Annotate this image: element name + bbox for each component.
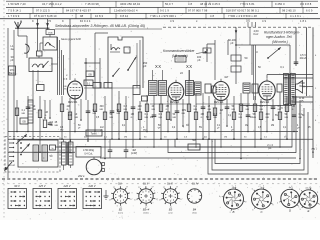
svg-text:MΩ: MΩ	[278, 109, 282, 111]
svg-text:pF: pF	[230, 41, 233, 45]
svg-text:MΩ: MΩ	[246, 109, 250, 111]
svg-text:2M: 2M	[201, 113, 204, 116]
svg-text:0,1: 0,1	[280, 65, 284, 69]
ground symbol bottom	[104, 190, 109, 199]
svg-text:0,5: 0,5	[159, 113, 163, 116]
svg-text:25: 25	[208, 105, 211, 108]
svg-text:MΩ: MΩ	[138, 109, 142, 111]
tube socket E	[299, 186, 320, 213]
table mid rule	[6, 6, 318, 8]
svg-text:E: E	[308, 209, 310, 213]
svg-text:20mA: 20mA	[300, 56, 307, 60]
wire segment y104 a	[150, 103, 190, 105]
svg-text:Ω: Ω	[166, 109, 168, 111]
svg-text:B3: B3	[169, 208, 173, 212]
svg-text:9: 9	[62, 19, 64, 23]
switch box right	[252, 45, 290, 75]
table lower rule	[6, 12, 318, 14]
svg-text:pF: pF	[143, 64, 146, 68]
tube Rö4	[259, 78, 275, 102]
svg-text:97 8,10 7 8,28 10: 97 8,10 7 8,28 10	[34, 14, 57, 18]
svg-text:(unt): (unt)	[169, 212, 173, 215]
svg-text:Gauss jugend 4x90: Gauss jugend 4x90	[61, 38, 82, 41]
IF can 2	[159, 70, 167, 96]
bus wire 5	[100, 157, 296, 159]
svg-text:48 46 29 0 25 0: 48 46 29 0 25 0	[200, 2, 221, 6]
wire bottom right block	[240, 106, 292, 111]
svg-text:17: 17	[180, 199, 182, 201]
svg-text:2: 2	[277, 202, 278, 204]
svg-text:C: C	[260, 210, 263, 214]
page fold edge	[3, 0, 5, 220]
switch contact S1	[127, 57, 136, 71]
svg-text:1M: 1M	[224, 75, 228, 79]
svg-text:4Ω: 4Ω	[84, 137, 87, 139]
voltage selector 125 V	[33, 184, 52, 209]
bus wire 3	[55, 146, 292, 148]
svg-text:98: 98	[80, 14, 84, 18]
svg-text:MΩ: MΩ	[159, 117, 163, 119]
bus wire 1	[8, 131, 298, 133]
svg-text:50: 50	[285, 113, 288, 116]
nested return wires	[168, 96, 308, 174]
svg-text:50: 50	[244, 137, 247, 139]
svg-text:20: 20	[152, 105, 155, 108]
labels under tubes	[68, 102, 270, 104]
coupling caps tube1	[84, 83, 140, 89]
speaker LS	[296, 81, 303, 94]
svg-text:(Mit mehr.): (Mit mehr.)	[272, 40, 288, 44]
primary winding 2	[42, 145, 48, 161]
arrow from table 2	[46, 19, 48, 28]
svg-text:MΩ: MΩ	[232, 109, 236, 111]
svg-text:MΩ: MΩ	[253, 117, 257, 119]
padder box 1	[37, 85, 45, 91]
svg-text:6: 6	[252, 189, 253, 191]
speaker field circle	[86, 157, 104, 175]
svg-text:Ω: Ω	[45, 115, 47, 117]
svg-text:MΩ: MΩ	[124, 109, 128, 111]
svg-text:(mW): (mW)	[131, 151, 137, 155]
resistor top mid 1	[231, 55, 248, 61]
svg-text:MΩ: MΩ	[93, 113, 97, 115]
labels left column upper	[10, 44, 14, 62]
svg-text:0,2: 0,2	[124, 105, 128, 108]
svg-text:1 8 1: 1 8 1	[300, 19, 307, 23]
voltage tap strip	[8, 142, 16, 167]
svg-text:Sd II: Sd II	[143, 183, 148, 186]
svg-text:0,4 CuL: 0,4 CuL	[84, 153, 93, 156]
svg-text:MΩ: MΩ	[173, 117, 177, 119]
grid cap tube4	[277, 84, 282, 92]
svg-text:~: ~	[50, 158, 52, 161]
svg-text:MΩ: MΩ	[75, 117, 79, 119]
svg-text:4: 4	[315, 120, 317, 122]
labels near speaker	[299, 81, 305, 103]
bottom caption text	[118, 183, 198, 186]
svg-text:Bank: Bank	[9, 71, 16, 75]
svg-text:17: 17	[159, 199, 161, 201]
svg-text:9: 9	[300, 209, 301, 211]
resistor mid-left	[84, 80, 93, 86]
svg-text:B3+4: B3+4	[143, 208, 150, 212]
junction dots middle band	[13, 117, 301, 159]
svg-text:m: m	[312, 151, 314, 154]
svg-text:Selbstbau-abonneller 3-Röhrge: Selbstbau-abonneller 3-Röhrgen- 45 MB-LB…	[55, 24, 145, 28]
table column ticks	[30, 1, 303, 19]
svg-text:x: x	[66, 73, 68, 77]
resistor pair tube2 left	[133, 86, 148, 102]
svg-text:MΩ: MΩ	[260, 109, 264, 111]
IF can 3	[186, 70, 194, 96]
svg-text:1M: 1M	[131, 113, 134, 116]
tube Rö3	[213, 79, 229, 103]
svg-text:17: 17	[163, 187, 165, 189]
antenna	[15, 22, 22, 29]
svg-text:0,5: 0,5	[50, 121, 54, 124]
svg-text:4: 4	[315, 55, 317, 57]
svg-text:4: 4	[291, 186, 292, 188]
svg-text:0,5: 0,5	[258, 127, 262, 129]
label row below bus	[64, 137, 287, 139]
title text	[55, 24, 162, 29]
switch wafer B3	[159, 186, 183, 214]
svg-text:7: 7	[316, 149, 318, 151]
svg-text:GB: GB	[22, 121, 26, 124]
wires left coil block	[18, 28, 50, 58]
table top rule	[6, 0, 318, 2]
svg-text:9 250 0: 9 250 0	[275, 2, 285, 6]
wave switch contacts a	[63, 73, 68, 81]
svg-text:pF: pF	[10, 58, 13, 62]
wire drop right 1	[235, 27, 237, 45]
resistor pair tube4 left	[243, 83, 258, 93]
svg-text:MΩ: MΩ	[194, 109, 198, 111]
svg-text:0,1: 0,1	[87, 82, 91, 85]
svg-text:0,1: 0,1	[194, 105, 198, 108]
wire right inner border	[306, 27, 308, 96]
svg-text:4 8: 4 8	[210, 14, 214, 18]
svg-text:202 e: 202 e	[77, 174, 85, 178]
wire segment y104 b	[196, 103, 250, 105]
svg-text:0,5: 0,5	[184, 137, 188, 139]
labels right column lower	[267, 143, 315, 154]
svg-text:98 2 65 10: 98 2 65 10	[282, 9, 296, 13]
bus wire 2	[8, 138, 313, 140]
svg-text:240 V: 240 V	[87, 184, 95, 188]
svg-text:MΩ: MΩ	[117, 113, 121, 115]
antenna junction wire	[15, 27, 50, 29]
tube Rö1	[67, 78, 82, 101]
svg-text:0,1: 0,1	[22, 109, 26, 112]
mains selector box	[18, 140, 58, 167]
svg-text:ngen-Audion -Teil: ngen-Audion -Teil	[266, 35, 292, 39]
svg-text:MΩ: MΩ	[214, 117, 218, 119]
power transformer T1	[62, 139, 74, 170]
cap cluster top mid	[197, 48, 211, 62]
svg-text:518 597 60 917 30 98 0,1: 518 597 60 917 30 98 0,1	[226, 9, 259, 13]
switch wafer B2	[109, 186, 133, 214]
svg-text:17: 17	[130, 199, 132, 201]
svg-text:17: 17	[134, 199, 136, 201]
svg-text:MΩ: MΩ	[55, 125, 59, 127]
svg-text:4 x 4 9 x: 4 x 4 9 x	[290, 14, 302, 18]
svg-text:97 0 121 5: 97 0 121 5	[36, 9, 50, 13]
osc coil L3	[110, 44, 120, 52]
resistor top mid 2	[224, 66, 241, 79]
svg-text:pF: pF	[78, 128, 81, 130]
svg-text:RES 164: RES 164	[260, 102, 270, 104]
svg-text:4M: 4M	[166, 105, 169, 108]
svg-text:MΩ: MΩ	[100, 109, 104, 111]
GB box left	[20, 118, 28, 124]
svg-text:10 9 4 4: 10 9 4 4	[80, 19, 91, 23]
svg-text:4 9: 4 9	[170, 19, 174, 23]
label 170b box	[46, 28, 55, 34]
wire drop right 2	[295, 27, 297, 66]
svg-text:0,1: 0,1	[264, 137, 268, 139]
svg-text:1M: 1M	[45, 111, 48, 114]
coil bundle wires	[38, 37, 64, 95]
svg-text:10 8,3: 10 8,3	[95, 14, 103, 18]
GB box	[86, 71, 94, 77]
svg-text:Sdl: Sdl	[118, 183, 122, 186]
trimmer square 2	[124, 47, 130, 53]
svg-text:50: 50	[232, 105, 235, 108]
svg-text:10N: 10N	[182, 109, 187, 112]
small box left	[9, 66, 16, 75]
mains plug arrow	[4, 162, 12, 171]
svg-text:B: B	[233, 210, 235, 214]
svg-text:0,1: 0,1	[239, 113, 243, 116]
IF can 4	[195, 82, 202, 95]
voltage selector 90 V	[8, 184, 27, 209]
svg-text:50: 50	[258, 66, 261, 69]
svg-text:17: 17	[152, 187, 154, 189]
chassis ground line	[2, 178, 318, 180]
wires vertical band	[14, 30, 300, 159]
resistors middle band	[15, 104, 296, 128]
svg-text:22: 22	[180, 71, 183, 75]
svg-text:17: 17	[176, 187, 178, 189]
svg-text:9: 9	[273, 204, 274, 206]
svg-text:MΩ: MΩ	[299, 117, 303, 119]
svg-text:4a: 4a	[11, 47, 14, 51]
mains switch	[20, 142, 30, 155]
table row 4 text	[20, 19, 307, 23]
table row 2 text	[8, 9, 313, 13]
svg-text:5N: 5N	[253, 113, 256, 116]
svg-text:(mitte): (mitte)	[143, 212, 149, 215]
svg-text:MΩ: MΩ	[208, 109, 212, 111]
double wire right switchbox	[254, 45, 256, 100]
svg-text:0,1: 0,1	[145, 113, 149, 116]
svg-text:1700 Wdg: 1700 Wdg	[83, 149, 95, 152]
svg-text:17: 17	[126, 187, 128, 189]
svg-text:Sd IV: Sd IV	[192, 183, 198, 186]
svg-text:0,2: 0,2	[172, 127, 176, 129]
tone label box	[86, 130, 102, 136]
svg-text:pF: pF	[197, 58, 200, 62]
svg-text:220 V: 220 V	[62, 184, 70, 188]
cap on bus 5	[108, 139, 113, 158]
svg-text:MΩ: MΩ	[285, 117, 289, 119]
svg-text:2M: 2M	[124, 137, 127, 139]
value labels middle band	[22, 105, 303, 127]
svg-text:300: 300	[100, 105, 105, 108]
wire left border	[7, 28, 9, 178]
coil curl La	[24, 44, 29, 53]
svg-text:97 97 800 7 98: 97 97 800 7 98	[188, 9, 208, 13]
table row 1 text	[8, 2, 312, 6]
svg-text:x x: x x	[63, 77, 68, 81]
svg-text:4600 250 48,04: 4600 250 48,04	[120, 2, 140, 6]
svg-text:9: 9	[32, 19, 34, 23]
svg-text:(m.m): (m.m)	[306, 188, 312, 190]
primary winding 1	[33, 145, 39, 161]
svg-text:5M: 5M	[192, 138, 196, 142]
svg-text:GB: GB	[88, 73, 92, 76]
svg-text:4 9: 4 9	[262, 19, 266, 23]
table row 3 text	[8, 14, 302, 18]
svg-text:5N: 5N	[199, 127, 202, 129]
svg-text:2M: 2M	[67, 105, 70, 108]
svg-text:50: 50	[245, 56, 248, 60]
svg-text:4Ω: 4Ω	[204, 137, 207, 139]
cap on bus 5 b	[124, 139, 138, 158]
right title block	[264, 30, 301, 44]
middle note text	[163, 49, 208, 58]
extra value labels	[60, 115, 311, 132]
wire right connects	[235, 44, 252, 46]
svg-text:50: 50	[173, 113, 176, 116]
svg-text:(vorn): (vorn)	[118, 213, 123, 215]
wave switch contacts b	[155, 64, 162, 69]
cap block above tube2	[175, 56, 186, 62]
mains dashed outline	[5, 137, 60, 173]
svg-text:100: 100	[138, 105, 143, 108]
tube socket D	[277, 186, 299, 213]
svg-text:x: x	[196, 20, 198, 23]
output transformer T2	[284, 74, 296, 105]
trimmer square	[37, 51, 43, 56]
svg-text:MΩ: MΩ	[110, 117, 114, 119]
svg-text:7 45 00 98: 7 45 00 98	[85, 2, 99, 6]
svg-text:B2: B2	[119, 208, 123, 212]
svg-text:2M: 2M	[271, 125, 274, 127]
svg-text:4: 4	[263, 186, 264, 188]
resistor box mid-bottom	[188, 138, 200, 150]
coil box B	[29, 58, 52, 72]
svg-text:1M: 1M	[220, 109, 223, 112]
svg-text:6: 6	[219, 196, 220, 198]
svg-text:µF: µF	[268, 146, 271, 150]
tube Rö2	[168, 80, 184, 104]
svg-text:17: 17	[113, 187, 115, 189]
fold mark line	[2, 183, 318, 185]
table bottom rule	[0, 18, 320, 20]
svg-text:84 197 87 8 415 97: 84 197 87 8 415 97	[66, 9, 91, 13]
svg-text:50,0 7: 50,0 7	[165, 2, 173, 6]
svg-text:Rundfunkteil 3-Röhrgen-: Rundfunkteil 3-Röhrgen-	[264, 30, 301, 34]
svg-text:MΩ: MΩ	[182, 113, 186, 115]
svg-text:17: 17	[138, 187, 140, 189]
svg-text:0,1: 0,1	[228, 115, 232, 117]
wave switch contacts c	[186, 64, 193, 69]
svg-text:MΩ: MΩ	[266, 117, 270, 119]
svg-text:µF: µF	[217, 128, 220, 130]
svg-text:0,1: 0,1	[104, 137, 108, 139]
osc shield box	[108, 37, 143, 88]
resistor pair tube3 left	[205, 84, 216, 93]
svg-text:1M: 1M	[245, 125, 248, 127]
svg-text:125 V: 125 V	[38, 184, 45, 188]
svg-text:Sd III: Sd III	[167, 183, 173, 186]
svg-text:B4: B4	[193, 208, 197, 212]
svg-text:Ω: Ω	[131, 117, 133, 119]
switch contact S2	[112, 68, 119, 77]
labels switch box	[256, 51, 284, 69]
svg-text:1: 1	[317, 192, 319, 194]
svg-text:0,1: 0,1	[122, 125, 126, 127]
svg-text:170b: 170b	[48, 32, 54, 34]
svg-text:D: D	[289, 209, 291, 213]
svg-text:MΩ: MΩ	[145, 117, 149, 119]
svg-text:5N: 5N	[275, 115, 278, 117]
svg-text:181: 181	[246, 20, 251, 23]
svg-text:17: 17	[109, 199, 111, 201]
tube socket C	[252, 186, 274, 214]
svg-text:25: 25	[308, 127, 311, 129]
svg-text:7 5 6 14 1: 7 5 6 14 1	[8, 9, 21, 13]
wire right border	[312, 27, 314, 158]
fuse box	[50, 145, 56, 150]
svg-text:7 500 x 4 9 8 500 x 48: 7 500 x 4 9 8 500 x 48	[228, 14, 257, 18]
svg-text:50: 50	[110, 113, 113, 116]
svg-text:Kommandoverstärker: Kommandoverstärker	[163, 49, 195, 53]
svg-text:25: 25	[55, 121, 58, 124]
choke tall	[28, 100, 33, 123]
cap right	[294, 61, 299, 63]
svg-text:1: 1	[315, 88, 317, 90]
wires output right	[267, 75, 313, 103]
svg-text:12x60x90 90x10 4: 12x60x90 90x10 4	[114, 9, 138, 13]
field coil label box	[76, 147, 101, 158]
svg-text:9 0 1 9: 9 0 1 9	[160, 9, 169, 13]
svg-text:MΩ: MΩ	[152, 109, 156, 111]
switch arrow crossing bus	[16, 134, 27, 144]
tube socket B	[219, 186, 246, 214]
svg-text:MΩ: MΩ	[239, 117, 243, 119]
svg-text:XX: XX	[155, 64, 162, 69]
arrow from table 1	[36, 19, 38, 28]
svg-text:7 98 x 4 x 970 000 x: 7 98 x 4 x 970 000 x	[150, 14, 177, 18]
svg-text:U: U	[256, 51, 258, 54]
svg-text:Ω: Ω	[201, 117, 203, 119]
svg-text:XX: XX	[186, 64, 193, 69]
svg-text:90 V: 90 V	[14, 184, 20, 188]
svg-text:1 7 9 9 9: 1 7 9 9 9	[8, 14, 20, 18]
svg-text:10: 10	[164, 137, 167, 139]
svg-text:0,1: 0,1	[283, 127, 287, 129]
svg-text:9 8 44: 9 8 44	[120, 14, 128, 18]
svg-text:5N: 5N	[117, 109, 120, 112]
svg-text:0,5: 0,5	[96, 117, 100, 119]
svg-text:3: 3	[252, 209, 253, 211]
svg-text:REN 904: REN 904	[68, 102, 78, 104]
svg-text:4 8: 4 8	[188, 2, 192, 6]
svg-text:MΩ: MΩ	[50, 125, 54, 127]
